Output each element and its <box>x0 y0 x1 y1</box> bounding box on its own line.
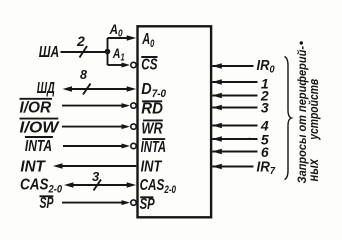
svg-text:ША: ША <box>39 44 59 61</box>
svg-text:CAS2-0: CAS2-0 <box>20 177 63 196</box>
svg-text:SP: SP <box>40 195 54 212</box>
svg-text:2: 2 <box>76 33 85 49</box>
svg-text:INTA: INTA <box>141 139 166 156</box>
svg-text:WR: WR <box>141 121 163 138</box>
svg-text:8: 8 <box>80 68 87 82</box>
svg-text:устройств: устройств <box>306 79 321 141</box>
svg-text:RD: RD <box>141 101 163 118</box>
svg-text:IR0: IR0 <box>257 57 275 76</box>
svg-text:3: 3 <box>92 169 100 184</box>
svg-text:A0: A0 <box>109 21 123 40</box>
svg-text:3: 3 <box>261 99 269 115</box>
svg-text:A0: A0 <box>142 31 155 50</box>
svg-text:6: 6 <box>261 144 269 160</box>
svg-text:ШД: ШД <box>37 80 55 97</box>
svg-text:INT: INT <box>20 159 46 176</box>
svg-text:CS: CS <box>141 57 157 74</box>
svg-text:INT: INT <box>141 158 163 175</box>
svg-text:SP: SP <box>140 196 155 213</box>
svg-text:A1: A1 <box>112 45 125 64</box>
svg-text:INTA: INTA <box>25 138 52 155</box>
svg-text:IR7: IR7 <box>257 159 277 178</box>
svg-text:I/OW: I/OW <box>20 120 61 137</box>
svg-text:I/OR: I/OR <box>20 100 52 117</box>
svg-text:CAS2-0: CAS2-0 <box>140 177 177 196</box>
svg-text:ных: ных <box>306 159 321 182</box>
svg-text:D7-0: D7-0 <box>141 81 166 100</box>
